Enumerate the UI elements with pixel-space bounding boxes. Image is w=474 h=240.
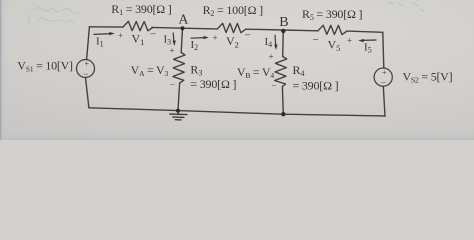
wire right vertical to VS2 [383,32,384,68]
voltage source VS1 [77,60,95,78]
svg-text:−: − [83,69,88,79]
svg-text:= 390[Ω ]: = 390[Ω ] [293,79,339,93]
current arrow I1 [94,32,115,35]
wire top-left vertical (VS1 top lead) [87,27,90,60]
wire node B to R5 [283,29,318,32]
voltage source VS2 [374,68,392,86]
svg-text:VA = V3: VA = V3 [131,63,169,78]
svg-text:−: − [245,30,251,42]
node A dot [181,26,185,30]
ground [170,111,187,120]
wire node A to R2 [183,27,218,30]
svg-text:−: − [170,80,175,90]
faint handwriting top-left [28,8,79,23]
svg-text:+: + [347,36,352,46]
svg-text:+: + [170,46,175,56]
wire top from corner to R1 [89,26,122,28]
paper background [0,0,474,140]
current arrow I5 [358,39,376,42]
resistor R1 [123,21,153,30]
current arrow I2 [191,36,209,39]
svg-text:−: − [313,34,319,46]
svg-text:VS1 = 10[V]: VS1 = 10[V] [17,58,73,73]
svg-text:−: − [272,81,277,91]
wire R1 to node A [152,26,183,29]
svg-text:−: − [150,29,156,41]
resistor R2 [218,23,246,32]
wire R5 to top-right corner [347,31,383,32]
resistor R4 [275,57,287,87]
wire node B down to R4 [282,30,285,57]
resistor R3 [173,53,185,84]
wire R2 to node B [246,28,283,31]
current arrow I3 [173,33,176,47]
wire R3 to ground junction [178,83,180,111]
current arrow I4 [274,35,277,50]
svg-text:B: B [279,15,288,30]
junction dot ground [176,109,180,113]
wire VS2 bottom lead [383,86,385,116]
wire VS1 bottom lead [86,78,89,108]
svg-text:A: A [178,12,189,27]
wire bottom [89,108,385,116]
resistor R5 [318,25,347,34]
node B dot [281,29,285,33]
svg-text:VS2 = 5[V]: VS2 = 5[V] [403,70,453,85]
svg-text:+: + [213,33,218,43]
junction dot R4 bottom [281,112,285,116]
svg-text:= 390[Ω ]: = 390[Ω ] [190,77,236,91]
faint marks top-right [388,2,424,11]
svg-text:+: + [85,60,90,69]
svg-text:VB = V4: VB = V4 [237,65,274,80]
left page edge band [0,0,9,140]
wire R4 to bottom junction [281,87,284,115]
wire node A down to R3 [181,28,182,52]
svg-text:+: + [382,68,387,77]
svg-text:+: + [118,31,123,41]
svg-text:+: + [269,52,274,62]
svg-text:−: − [381,78,386,88]
